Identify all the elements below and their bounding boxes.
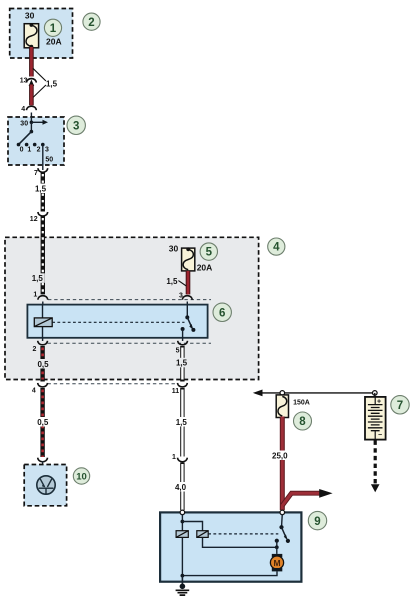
wire red connector 13 to ignition switch [29,85,34,106]
battery positive bus line [253,390,375,397]
wire from contact 3 to terminal 50 [42,145,44,165]
svg-text:−: − [378,432,382,439]
connector pin 4 at switch [27,106,37,117]
svg-text:3: 3 [73,121,79,133]
wire black/white switch to connector 12 [41,172,45,212]
connector pin 12 [38,212,48,216]
wire white relay pin5 down [180,346,184,380]
relay pin 1 connector [38,296,48,305]
svg-text:5: 5 [176,347,180,354]
battery negative dashed lead to ground [371,441,380,493]
svg-text:2: 2 [88,17,94,29]
svg-text:1,5: 1,5 [176,359,188,368]
svg-text:2: 2 [37,146,41,153]
svg-text:1,5: 1,5 [32,274,44,283]
svg-text:2: 2 [32,346,36,353]
wire red F2 to relay pin 3 [186,271,191,295]
svg-text:3: 3 [179,293,183,300]
solenoid mechanical dashed link [208,533,278,535]
switch output stub [42,165,44,170]
relay coil [34,318,52,327]
wire size label 0,5 [35,359,51,369]
fuse F1 (20A) [24,23,38,48]
winding to ground wire [181,537,183,575]
wire white connector 1 to starter [180,463,184,511]
mounting block box (item 2) [10,9,73,59]
contact to motor wire [275,545,279,554]
svg-text:1: 1 [33,292,37,299]
svg-text:9: 9 [314,516,320,528]
svg-text:25,0: 25,0 [272,451,288,460]
wire red/black crossing to connector 4 [40,380,44,382]
wire size label 1,5 [33,184,48,194]
switch blade [19,132,32,145]
svg-text:10: 10 [76,471,87,482]
wire red F3 to starter [280,417,285,511]
wire black/white connector 12 to relay pin 1 [41,216,45,295]
svg-text:12: 12 [30,216,38,223]
connector pin 1 lower [178,458,188,462]
wire size label 25,0 [270,451,290,461]
relay pin 3 connector [182,296,192,305]
svg-text:4: 4 [273,242,280,254]
wire red/black relay pin2 down [40,346,44,380]
connector pin 7 [38,168,48,172]
label circle 1 [44,19,61,36]
svg-text:13: 13 [20,77,28,84]
svg-text:20A: 20A [46,37,62,47]
wire size label 0,5 [35,417,51,427]
label circle 4 [268,238,285,255]
wire size label 1,5 with leaders [32,68,58,98]
fuse F3 (150A) [276,395,288,418]
label circle 8 [294,412,312,430]
svg-text:1: 1 [172,454,176,461]
svg-text:30: 30 [20,120,28,127]
label circle 3 [67,116,85,134]
svg-text:5: 5 [206,247,213,259]
wire size label 1,5 [174,417,190,427]
svg-text:4: 4 [21,106,25,113]
label circle 6 [213,303,231,321]
svg-text:30: 30 [25,11,35,21]
solenoid winding feed wires [181,514,203,531]
svg-text:7: 7 [397,400,403,412]
ground lead [181,576,183,585]
svg-text:1: 1 [27,146,31,153]
connector at device 10 [38,458,48,465]
wire size label 1,5 with leader [166,277,186,286]
switch node terminal 30 [30,117,48,133]
svg-text:1: 1 [50,23,57,35]
svg-text:7: 7 [34,170,38,177]
ignition switch box (item 3) [8,117,64,165]
svg-text:1,5: 1,5 [35,184,47,193]
svg-text:30: 30 [169,243,179,253]
svg-text:0,5: 0,5 [37,418,49,427]
svg-text:3: 3 [45,146,49,153]
harness connector row dashed line (pins 4, 11) [48,383,179,385]
svg-text:0,5: 0,5 [37,360,49,369]
wire red/black connector 4 to device 10 [40,388,44,457]
winding to contact wire [203,537,277,547]
label circle 10 [73,468,89,484]
device box (item 10) [24,465,66,506]
switch position contacts 0 1 2 3 [17,143,45,147]
relay socket upper row dashed line [48,299,211,301]
connector pin 13 [27,79,37,86]
svg-text:8: 8 [299,416,306,428]
label circle 5 [200,243,217,260]
svg-text:150A: 150A [293,399,310,406]
svg-text:1,5: 1,5 [166,277,178,286]
label circle 9 [308,511,326,529]
svg-text:4: 4 [32,388,36,395]
svg-text:11: 11 [172,388,180,395]
fuse F2 (20A) [182,247,195,270]
node at fuse F3 top [280,391,285,396]
mounting block dashed box (item 4) [5,237,259,379]
label circle 2 [83,13,100,30]
svg-text:4,0: 4,0 [175,483,187,492]
wire size label 1,5 inside box4 [30,273,45,283]
svg-text:M: M [273,558,280,568]
starter relay box (item 6) [27,305,207,338]
solenoid hold-in winding [197,531,208,538]
svg-text:0: 0 [20,146,24,153]
ground [176,584,190,596]
label circle 7 [391,396,409,414]
svg-text:50: 50 [45,157,53,164]
wire red F1 to connector 13 [29,47,34,77]
wire white connector 11 to connector 1 [180,388,184,457]
relay pin 5 connector [178,338,188,345]
starter battery pin node [280,510,285,515]
node at battery positive [373,391,378,396]
relay contact [181,305,196,338]
connector pin 4 lower [38,383,48,387]
motor to ground wire [181,571,278,577]
wire size label 4,0 [173,482,189,492]
svg-text:1,5: 1,5 [176,418,188,427]
connector pin 11 [178,383,188,387]
svg-text:1,5: 1,5 [46,79,58,88]
svg-text:6: 6 [219,308,225,320]
red branch to other consumers arrow [282,489,332,506]
wire size label 1,5 [174,358,190,368]
svg-text:20A: 20A [197,263,213,273]
relay socket lower row dashed line [48,342,212,344]
starter control pin node [180,510,185,515]
solenoid pull-in winding [176,531,188,538]
device 10 symbol [37,476,55,494]
starter motor M [270,554,283,572]
relay coil wire pin1 to pin2 [42,305,44,338]
rewire striped over box4 [41,237,45,294]
starter box (item 9) [160,512,301,581]
relay pin 2 connector [38,338,48,345]
relay mechanical dashed link [52,321,184,323]
starter contact [275,514,290,547]
battery (item 7) [365,393,386,440]
wire white crossing to connector 11 [180,380,184,382]
